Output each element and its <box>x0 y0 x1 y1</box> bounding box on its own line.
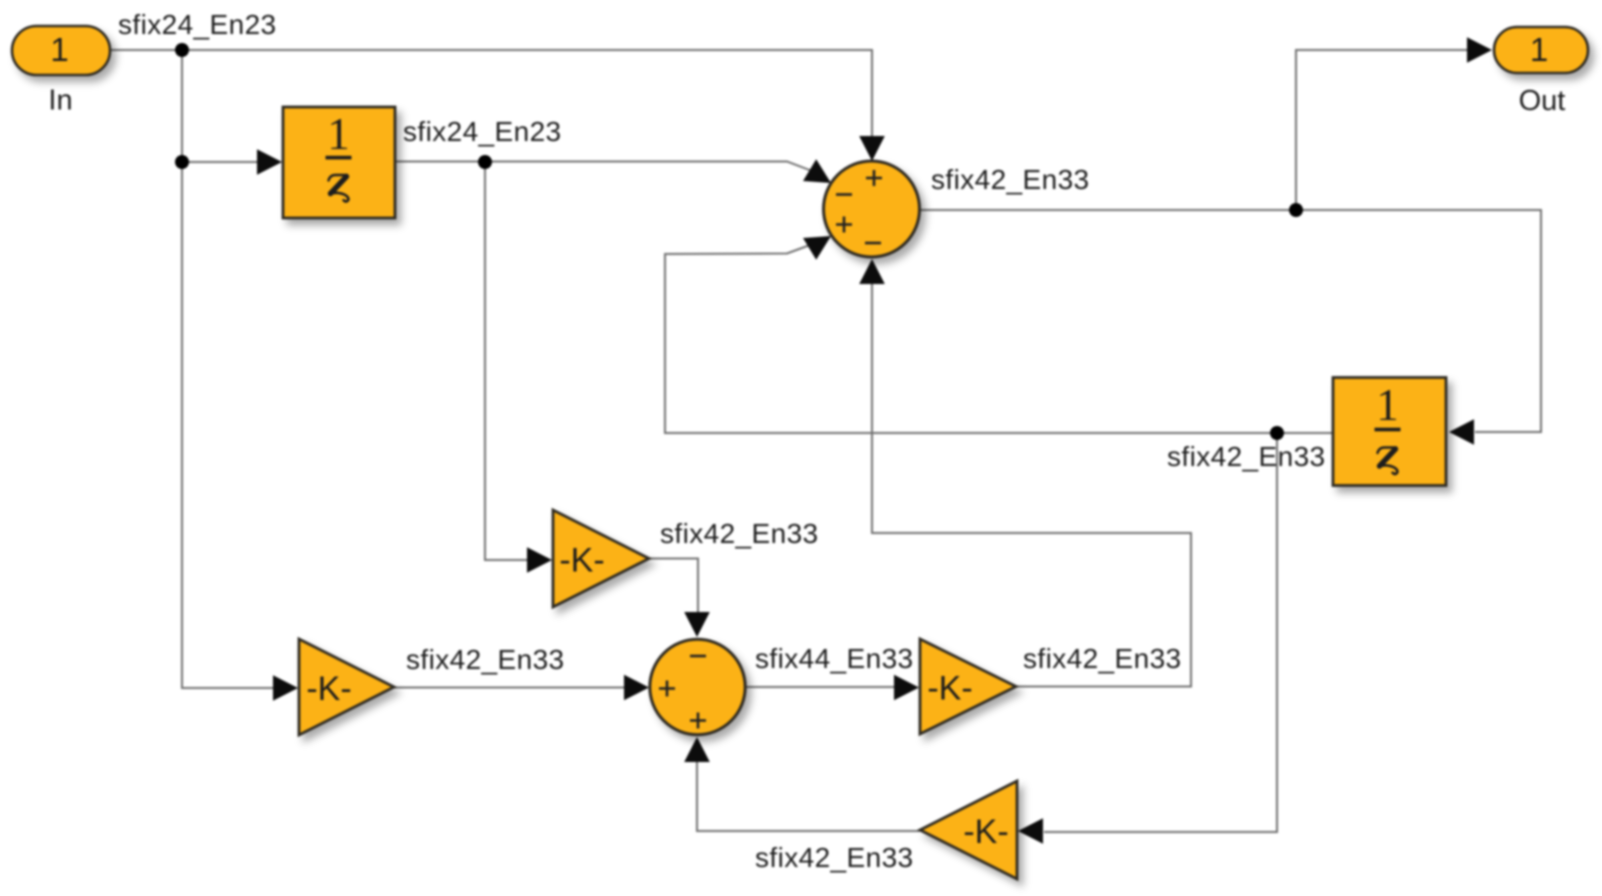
svg-text:1: 1 <box>50 31 68 68</box>
arrowhead into Sum1 bottom <box>859 259 885 284</box>
svg-text:sfix44_En33: sfix44_En33 <box>755 643 914 674</box>
wire UnitDelay2 output feedback to Sum1 lower-left <box>665 245 1333 433</box>
gain G3 <box>920 639 1016 734</box>
wire In to Sum1 top <box>110 50 872 140</box>
svg-text:1: 1 <box>327 109 350 159</box>
arrowhead into Sum2 left <box>624 675 649 701</box>
S1 sign plus lower-left <box>836 217 852 233</box>
svg-text:-K-: -K- <box>963 813 1008 851</box>
wire junction up to Out port <box>1296 50 1470 210</box>
unit delay U1 block <box>283 107 395 218</box>
svg-text:Out: Out <box>1519 85 1566 117</box>
gain G4 (left pointing) <box>920 781 1017 879</box>
outport Out block <box>1494 27 1588 73</box>
wire In branch down to Gain2 <box>182 50 276 688</box>
S2 sign minus top <box>690 655 706 658</box>
svg-text:sfix42_En33: sfix42_En33 <box>755 842 914 873</box>
arrowhead into Sum1 lower-left <box>803 236 831 260</box>
arrowhead into Sum2 bottom <box>684 737 710 762</box>
wire Gain4 output to Sum2 bottom <box>697 762 920 831</box>
svg-text:sfix42_En33: sfix42_En33 <box>660 518 819 549</box>
svg-text:-K-: -K- <box>559 542 604 580</box>
S1 sign minus upper-left <box>836 193 852 196</box>
gain G2 <box>299 639 394 735</box>
wire UnitDelay1 output to Sum1 upper-left <box>395 162 812 172</box>
arrowhead into Sum2 top <box>684 612 710 637</box>
S2 sign plus bottom <box>690 713 706 729</box>
gain G1 <box>553 510 649 607</box>
junction dot at UnitDelay2 output <box>1270 426 1284 440</box>
svg-text:-K-: -K- <box>927 670 972 708</box>
wire feedback down to Gain4 input <box>1044 433 1277 832</box>
svg-text:-K-: -K- <box>306 670 351 708</box>
arrowhead into Out port <box>1467 37 1492 63</box>
wire Gain1 output to Sum2 top <box>649 559 698 617</box>
junction dot at UnitDelay1 output <box>478 155 492 169</box>
svg-text:1: 1 <box>1376 380 1399 430</box>
arrowhead into UnitDelay1 <box>257 149 282 175</box>
arrowhead into UnitDelay2 <box>1449 419 1474 445</box>
svg-text:sfix24_En23: sfix24_En23 <box>118 9 277 40</box>
svg-text:sfix42_En33: sfix42_En33 <box>931 164 1090 195</box>
inport In block <box>12 26 110 75</box>
arrowhead into Gain4 <box>1018 818 1043 844</box>
svg-text:sfix42_En33: sfix42_En33 <box>1023 643 1182 674</box>
wire Gain3 output to Sum1 bottom <box>872 284 1191 687</box>
wire Gain2 output to Sum2 left <box>394 687 627 689</box>
S1 sign minus bottom <box>865 242 881 245</box>
S2 sign plus left <box>659 681 675 697</box>
arrowhead into Sum1 top <box>859 136 885 161</box>
sum S2 <box>650 639 745 734</box>
arrowhead into Sum1 upper-left <box>803 159 831 183</box>
wire Sum2 output to Gain3 input <box>745 686 897 688</box>
svg-text:sfix42_En33: sfix42_En33 <box>406 644 565 675</box>
wire branch to UnitDelay1 input <box>182 161 260 163</box>
junction dot at Sum1 output <box>1289 203 1303 217</box>
svg-text:sfix42_En33: sfix42_En33 <box>1167 441 1326 472</box>
junction dot at In branch top <box>175 43 189 57</box>
svg-text:sfix24_En23: sfix24_En23 <box>403 116 562 147</box>
svg-text:1: 1 <box>1530 31 1548 68</box>
S1 sign plus top <box>866 170 882 186</box>
wire Sum1 output to UnitDelay2 input <box>919 210 1541 432</box>
sum S1 <box>824 161 920 257</box>
unit delay U2 block <box>1333 378 1446 486</box>
arrowhead into Gain1 <box>527 547 552 573</box>
arrowhead into Gain2 <box>273 675 298 701</box>
arrowhead into Gain3 <box>894 675 919 701</box>
junction dot at In branch delay row <box>175 155 189 169</box>
svg-text:In: In <box>48 85 72 117</box>
wire branch down to Gain1 input <box>485 162 530 560</box>
